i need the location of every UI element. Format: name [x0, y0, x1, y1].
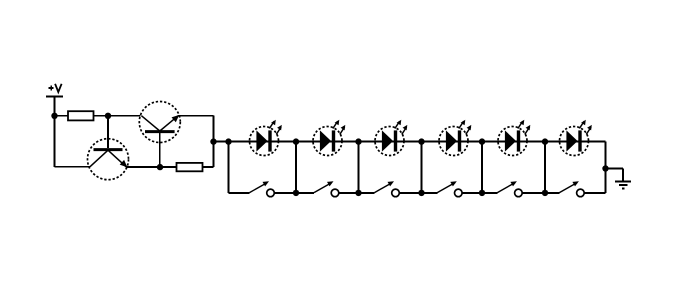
wire +V rail down: [54, 97, 56, 167]
wire vertical link 2: [295, 142, 297, 193]
LED D1: [250, 120, 282, 156]
LED D5: [498, 120, 530, 156]
wire vertical link 6: [544, 142, 546, 193]
transistor Q2: [139, 102, 180, 143]
node C dot (Q1 emitter / Q2 base / R2 left): [157, 164, 163, 170]
node dot top boundary 1: [225, 138, 231, 144]
node dot top boundary 5: [479, 138, 485, 144]
wire vertical link 5: [481, 142, 483, 193]
wire vertical link 4: [421, 142, 423, 193]
node dot bottom boundary 3: [355, 190, 361, 196]
switch S2: [296, 181, 359, 197]
node dot current source output: [210, 138, 216, 144]
wire Q1 emitter to node C: [126, 166, 177, 168]
switch S4: [422, 181, 483, 197]
switch S1: [229, 181, 297, 197]
+V supply label: [49, 84, 62, 92]
wire Q2 emitter to right rail: [178, 115, 214, 117]
node dot bottom boundary 5: [479, 190, 485, 196]
resistor R1: [55, 111, 109, 120]
wire Q2 base down: [159, 132, 161, 168]
resistor R2: [177, 163, 214, 171]
wire vertical link 3: [358, 142, 360, 193]
LED D2: [313, 120, 345, 156]
wire right rail vertical: [213, 116, 215, 167]
node dot top boundary 4: [418, 138, 424, 144]
node dot bottom boundary 6: [542, 190, 548, 196]
wire output to LED chain: [214, 141, 229, 143]
node dot right end: [602, 165, 608, 171]
wire Q1 base down: [107, 116, 109, 148]
node dot bottom boundary 2: [293, 190, 299, 196]
wire node B to Q2 collector: [108, 115, 141, 117]
node dot top boundary 2: [293, 138, 299, 144]
node dot bottom boundary 4: [418, 190, 424, 196]
switch S5: [482, 181, 545, 197]
LED D3: [375, 120, 407, 156]
wire to ground: [606, 169, 624, 182]
node dot top boundary 6: [542, 138, 548, 144]
wire vertical link 1: [228, 142, 230, 193]
wire LED chain top rail: [229, 141, 606, 143]
switch S6: [545, 181, 606, 197]
node B dot (R1 right / Q1 base / Q2 collector): [105, 113, 111, 119]
wire left rail to Q1 collector: [55, 166, 91, 168]
ground: [615, 182, 631, 189]
transistor Q1: [88, 139, 129, 180]
LED D6: [560, 120, 592, 156]
switch S3: [359, 181, 422, 197]
node dot top boundary 3: [355, 138, 361, 144]
node dot left rail: [51, 113, 57, 119]
+V supply rail bar: [46, 96, 63, 98]
wire right end vertical: [605, 142, 607, 193]
LED D4: [439, 120, 471, 156]
